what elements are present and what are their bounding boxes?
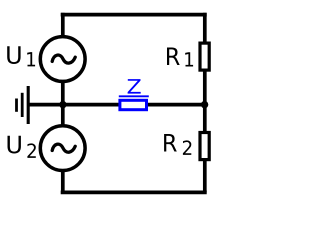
label Z underline: [119, 95, 149, 97]
node right junction: [201, 101, 208, 108]
wire right bottom vertical: [203, 160, 207, 192]
label R2: [164, 134, 177, 152]
label U1: [7, 46, 20, 64]
label U1 subscript 1: [27, 52, 35, 66]
wire middle horizontal left: [28, 103, 121, 107]
label U2 subscript 2: [27, 143, 35, 158]
wire right middle vertical: [203, 70, 207, 133]
wire bottom horizontal: [61, 191, 207, 195]
wire middle horizontal right: [146, 103, 205, 107]
wire left middle vertical: [61, 82, 65, 125]
wire top horizontal: [61, 13, 207, 17]
label R2 subscript 2: [183, 140, 191, 155]
voltage source U2: [40, 126, 85, 171]
label U2: [8, 136, 21, 154]
voltage source U1: [40, 37, 85, 82]
wire right top vertical: [203, 13, 207, 43]
resistor R2: [200, 133, 209, 160]
wire left bottom vertical: [61, 171, 65, 192]
resistor R1: [200, 43, 209, 70]
label Z: [128, 79, 141, 94]
label R1 subscript 1: [185, 52, 193, 66]
impedance Z: [120, 100, 147, 109]
wire U1 top vertical: [61, 13, 65, 37]
node left junction: [59, 101, 66, 108]
label R1: [167, 48, 180, 66]
ground: [17, 86, 29, 124]
